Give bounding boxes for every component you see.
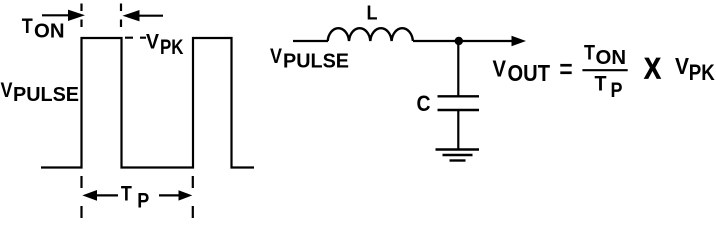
svg-text:V: V [675,53,690,79]
svg-text:T: T [595,73,607,96]
arrow TP pointing right [159,190,192,200]
label TP [121,182,149,213]
fraction numerator TON [584,42,626,69]
fraction denominator TP [595,73,623,102]
svg-text:V: V [146,30,159,53]
svg-text:P: P [611,79,623,102]
arrow TON pointing right [42,10,85,21]
label TON [22,15,65,43]
svg-text:P: P [137,188,149,212]
wire junction to capacitor [457,41,459,96]
equals sign [560,64,571,74]
svg-text:PK: PK [689,60,716,85]
svg-text:T: T [584,42,595,65]
svg-text:OUT: OUT [508,60,551,86]
svg-text:V: V [1,79,13,102]
wire inductor to junction [413,40,459,42]
arrow VPK pointing left [123,10,164,21]
label VPK result [675,53,715,85]
junction node dot [455,37,463,45]
wire capacitor to ground [457,110,459,150]
wire input to inductor [293,40,328,42]
label VOUT [493,56,551,86]
dashed leader to VPK [125,37,146,39]
svg-text:PK: PK [160,36,184,59]
label VPK [146,30,184,59]
ground [436,150,480,161]
capacitor C1 [438,96,480,110]
svg-text:T: T [121,182,132,206]
label VPULSE waveform [1,79,80,106]
svg-text:L: L [367,2,378,24]
svg-text:PULSE: PULSE [283,50,349,72]
arrow output VOUT [459,36,526,46]
svg-text:ON: ON [34,21,65,43]
svg-text:X: X [644,52,661,85]
svg-text:V: V [493,56,507,82]
waveform VPULSE trace [41,38,254,168]
node TP left dashed marker [80,176,82,218]
svg-text:ON: ON [596,47,627,69]
label VPULSE circuit input [270,45,349,73]
node TON left dashed marker [80,4,82,31]
fraction bar [582,69,627,71]
svg-text:T: T [22,15,33,38]
arrow TP pointing left [82,190,118,201]
node TON right dashed marker [120,4,122,31]
svg-text:PULSE: PULSE [13,84,79,106]
svg-text:C: C [417,91,431,116]
node TP right dashed marker [192,176,194,218]
inductor L1 [328,28,413,41]
svg-text:V: V [270,45,282,68]
